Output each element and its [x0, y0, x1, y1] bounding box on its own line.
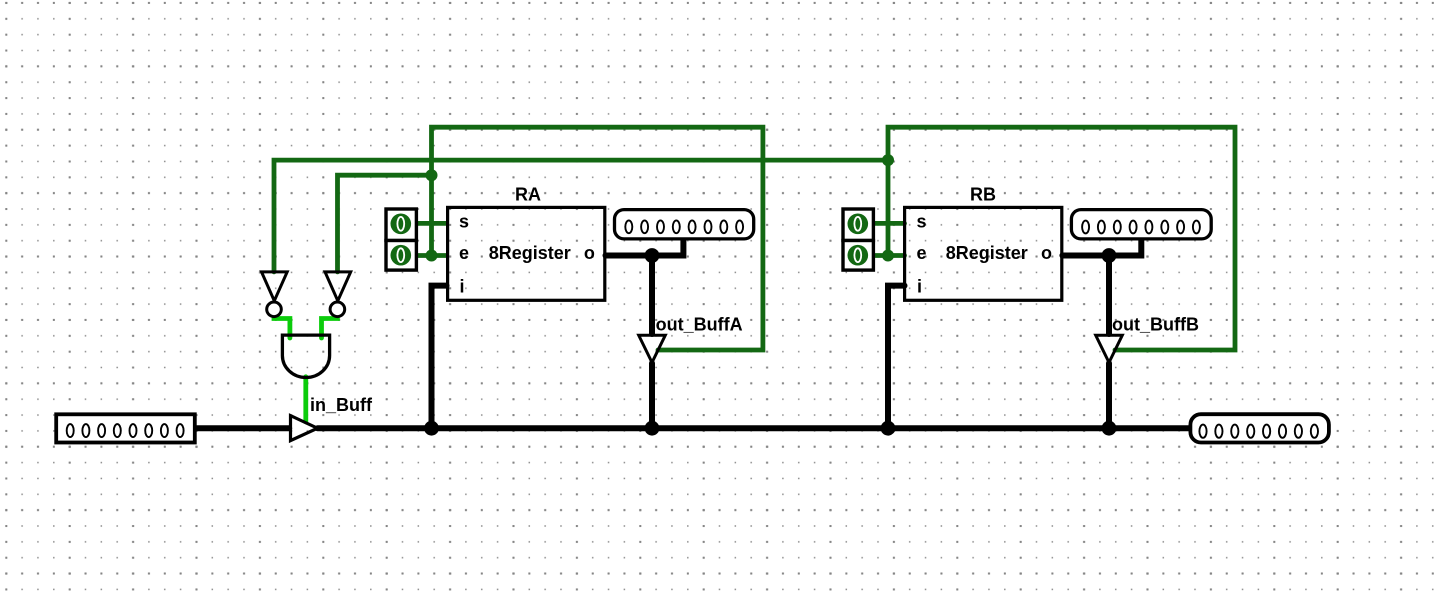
AND gate U1	[282, 335, 329, 377]
wire A (RB enable tap to inverter 1)	[274, 160, 888, 272]
input pin e RA	[386, 241, 416, 271]
node junction RB wireA	[882, 154, 894, 166]
wire AND gate output to in_Buff enable (high)	[303, 377, 308, 422]
wire pin s to RA	[413, 221, 447, 226]
node bus junction out_BuffB	[1102, 421, 1117, 436]
wire inverter2 output (high)	[322, 317, 338, 338]
wire bus RB o to junction	[1062, 253, 1109, 259]
node bus junction RA o	[645, 248, 660, 263]
svg-text:o: o	[1041, 243, 1052, 263]
wire bus RA o junction to display	[652, 239, 683, 256]
node bus junction RB i	[881, 421, 896, 436]
input pin s RB	[843, 209, 873, 241]
svg-text:e: e	[459, 243, 469, 263]
svg-text:out_BuffA: out_BuffA	[656, 314, 743, 334]
input pin e RB	[843, 241, 873, 271]
svg-text:in_Buff: in_Buff	[310, 395, 373, 415]
svg-text:i: i	[460, 276, 465, 296]
input pin s RA	[386, 209, 416, 241]
svg-text:o: o	[584, 243, 595, 263]
svg-text:8Register: 8Register	[946, 243, 1028, 263]
wire bus RB i input	[888, 286, 905, 429]
input pin 8-bit (bottom left)	[56, 414, 195, 442]
wire inverter1 output (high)	[274, 317, 290, 338]
inverter 1	[262, 272, 288, 317]
wire bus RB junction to out_BuffB	[1106, 256, 1112, 335]
inverter 2	[325, 272, 351, 317]
buffer in_Buff	[291, 416, 318, 441]
register RA	[448, 185, 605, 301]
node junction RA e	[426, 250, 438, 262]
output pin 8-bit (bottom right)	[1190, 414, 1329, 442]
wire RA feedback loop top	[432, 127, 763, 350]
display RB (probe)	[1071, 210, 1211, 239]
wire B (RA enable tap to inverter 2)	[338, 175, 432, 272]
buffer out_BuffB	[1096, 335, 1123, 362]
svg-text:out_BuffB: out_BuffB	[1112, 314, 1199, 334]
wire RB feedback loop top	[888, 127, 1235, 350]
svg-text:RA: RA	[515, 185, 541, 205]
wire bus RA junction to out_BuffA	[649, 256, 655, 335]
wire data bus main	[318, 425, 1189, 431]
wire pin e to RB	[870, 253, 905, 258]
node bus junction out_BuffA	[645, 421, 660, 436]
svg-text:e: e	[917, 243, 927, 263]
svg-text:RB: RB	[970, 185, 996, 205]
buffer out_BuffA	[639, 335, 666, 362]
svg-text:8Register: 8Register	[489, 243, 571, 263]
wire bus RB o junction to display	[1109, 240, 1141, 256]
node junction RA wireB	[426, 169, 438, 181]
wire pin s to RB	[870, 221, 905, 226]
svg-text:i: i	[917, 276, 922, 296]
wire bus out_BuffA to main bus	[649, 363, 655, 428]
svg-text:s: s	[459, 212, 469, 232]
wire pin e to RA	[413, 253, 447, 258]
node bus junction RA i	[424, 421, 439, 436]
register RB	[905, 185, 1062, 301]
svg-text:s: s	[917, 212, 927, 232]
display RA (probe)	[615, 210, 754, 239]
wire data bus input to in_Buff	[197, 425, 289, 431]
wire bus out_BuffB to main bus	[1106, 363, 1112, 428]
wire bus RA i input	[432, 286, 447, 429]
node bus junction RB o	[1102, 248, 1117, 263]
wire bus RA o to junction	[606, 253, 653, 259]
node junction RB e	[882, 250, 894, 262]
